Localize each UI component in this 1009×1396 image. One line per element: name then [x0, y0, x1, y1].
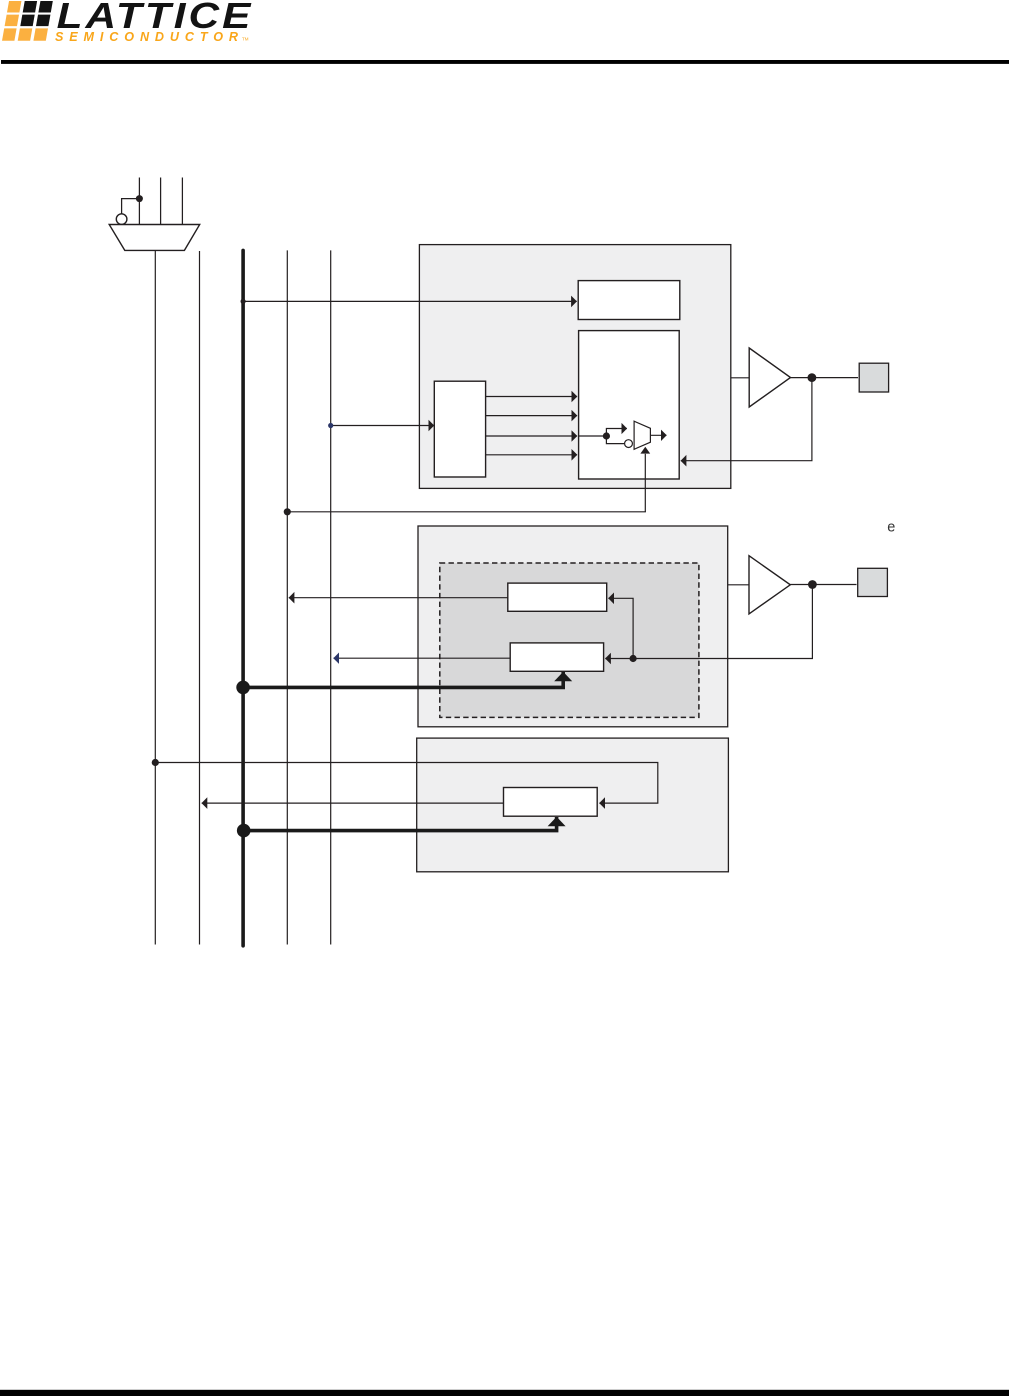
wire: into ddr mux node	[579, 435, 607, 437]
junction dot thick bus 1	[236, 681, 250, 695]
wire: buffer 2 to pad 2	[790, 584, 856, 586]
wire: mux input lower branch	[606, 436, 624, 444]
output buffer 2	[749, 556, 790, 614]
wire: bus line 1 to register 3 (over the top)	[155, 763, 658, 804]
junction dot on bus line 1	[152, 759, 159, 766]
wire: vertical bus line 5	[330, 250, 332, 944]
wire: delay out 2	[486, 415, 577, 417]
clock input line 1	[138, 178, 140, 225]
wire: pad 1 feedback	[681, 378, 812, 461]
header rule	[1, 60, 1009, 64]
junction dot thick bus 2	[237, 824, 251, 838]
ddr output mux	[634, 421, 650, 449]
block: register 3	[504, 788, 598, 817]
wire: delay out 1	[486, 396, 577, 398]
junction dot pad 1	[808, 373, 817, 382]
block: tall register (box 1b)	[579, 331, 680, 479]
wire: buffer 1 to pad	[791, 377, 859, 379]
wire: bus line 5 to delay block	[331, 425, 434, 427]
block: input register block (box 1)	[419, 245, 730, 489]
svg-text:TM: TM	[242, 36, 249, 41]
block: output register block (box 2)	[418, 526, 728, 727]
junction dot (navy) on bus line 5	[328, 423, 333, 428]
wire: pad 2 feedback	[634, 585, 812, 659]
clock input line 2	[160, 178, 162, 225]
junction dot on thick bus at y301	[241, 299, 246, 304]
wire: mux output vertical bus line 1	[154, 250, 156, 944]
wire: thick bus to register 3	[244, 817, 557, 831]
select arrowhead up	[640, 447, 650, 454]
block: tristate register block (box 3)	[417, 738, 729, 872]
wire: box1 to buffer 1	[731, 377, 749, 379]
wire: select feed horizontal	[287, 511, 646, 513]
logo grid	[2, 1, 53, 41]
wire: delay out 3	[486, 435, 577, 437]
wire: vertical bus line 2	[199, 251, 201, 945]
wire: thick vertical bus line	[241, 250, 245, 945]
junction dot on clock line 1	[136, 195, 143, 202]
wire: register 2b left output to bus line 5 (navy arrow)	[334, 657, 511, 659]
pad 2	[858, 568, 888, 596]
svg-text:e: e	[887, 519, 895, 535]
block: delay block (box 1c)	[434, 381, 485, 477]
wire: into register 2b right	[605, 658, 631, 660]
clock input line 3	[181, 178, 183, 225]
wire: register 3 output to bus line 2	[202, 802, 504, 804]
pad 1	[859, 363, 888, 392]
wire: ddr mux output arrow	[650, 434, 666, 436]
wire: ddr mux select from below	[644, 454, 646, 512]
junction dot ddr mux input	[603, 432, 610, 439]
wire L to inverter bubble	[122, 199, 140, 214]
wire: register 2a output to bus line 4	[289, 597, 508, 599]
wire: vertical bus line 4	[286, 250, 288, 944]
junction dot pad 2	[808, 580, 817, 589]
inverter bubble on mux lower input	[625, 440, 633, 448]
wire: thick bus to register 2b	[243, 672, 563, 687]
block: register 2a	[508, 583, 607, 611]
block: top register (box 1a)	[578, 281, 680, 320]
block: register 2b	[510, 643, 603, 671]
wire: mux input upper branch	[606, 429, 627, 437]
wire: thick bus to top register	[243, 300, 577, 302]
footer rule	[0, 1390, 1009, 1396]
clock mux trapezoid	[109, 225, 200, 251]
inverter bubble	[116, 214, 127, 225]
junction dot on bus line 4	[284, 508, 291, 515]
wire: L into register 2a right	[608, 598, 633, 658]
wire: box2 to buffer 2	[728, 584, 749, 586]
junction dot feedback 2	[630, 655, 637, 662]
output buffer 1	[749, 348, 790, 407]
block: dashed inner group	[440, 563, 699, 717]
wire: delay out 4	[486, 454, 577, 456]
